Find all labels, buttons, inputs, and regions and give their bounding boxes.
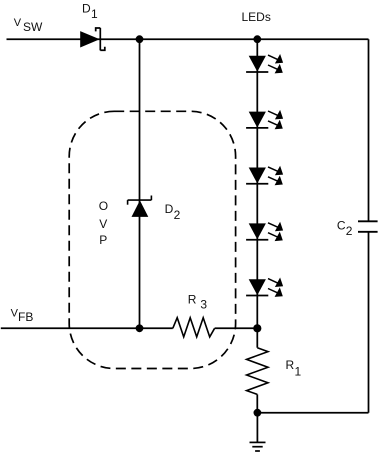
svg-text:2: 2 <box>174 208 181 222</box>
label D1 <box>82 2 98 21</box>
node dot D2 branch <box>136 35 144 43</box>
label R1 <box>286 358 302 378</box>
resistor R3 <box>173 318 215 337</box>
LED 4 <box>246 222 283 241</box>
svg-text:FB: FB <box>18 310 33 324</box>
svg-text:LEDs: LEDs <box>242 10 271 24</box>
svg-text:O: O <box>99 199 108 213</box>
label C2 <box>337 219 353 238</box>
svg-text:SW: SW <box>23 20 43 34</box>
label OVP <box>99 199 108 247</box>
resistor R1 <box>247 348 268 395</box>
LED 3 <box>246 166 283 185</box>
svg-text:R: R <box>188 293 197 307</box>
svg-text:V: V <box>99 217 107 231</box>
wire R1 to ground node <box>256 394 258 412</box>
diode D1 (Schottky) <box>80 28 105 51</box>
svg-text:3: 3 <box>200 298 207 312</box>
node dot LED bottom <box>253 324 261 332</box>
wire VFB <box>1 327 173 329</box>
wire LED node to R1 <box>256 328 258 347</box>
LED 5 <box>246 278 283 297</box>
svg-text:V: V <box>14 17 22 29</box>
svg-text:2: 2 <box>346 224 353 238</box>
label VFB <box>11 307 34 324</box>
label VSW <box>14 17 43 34</box>
node dot ground <box>254 409 262 417</box>
node dot LED branch <box>253 35 261 43</box>
wire right rail (upper) <box>368 39 370 221</box>
node dot D2 bottom <box>136 324 144 332</box>
label R3 <box>188 293 208 312</box>
svg-text:D: D <box>165 202 174 216</box>
label D2 <box>165 202 181 222</box>
wire D2 branch <box>139 39 141 328</box>
capacitor C2 <box>358 221 378 232</box>
OVP dashed box <box>69 111 235 368</box>
LED 1 <box>246 54 283 73</box>
svg-text:1: 1 <box>91 7 98 21</box>
svg-text:R: R <box>286 358 295 372</box>
wire R3 to LED node <box>215 327 258 329</box>
wire bottom <box>257 412 368 414</box>
svg-text:C: C <box>337 219 346 233</box>
zener diode D2 <box>128 196 152 217</box>
svg-text:D: D <box>82 2 91 16</box>
wire LED column <box>256 39 258 328</box>
svg-text:1: 1 <box>295 364 302 378</box>
ground <box>250 413 266 451</box>
wire right rail (lower) <box>368 232 370 413</box>
svg-text:P: P <box>99 233 107 247</box>
wire top rail VSW <box>7 38 369 40</box>
LED 2 <box>246 110 283 129</box>
